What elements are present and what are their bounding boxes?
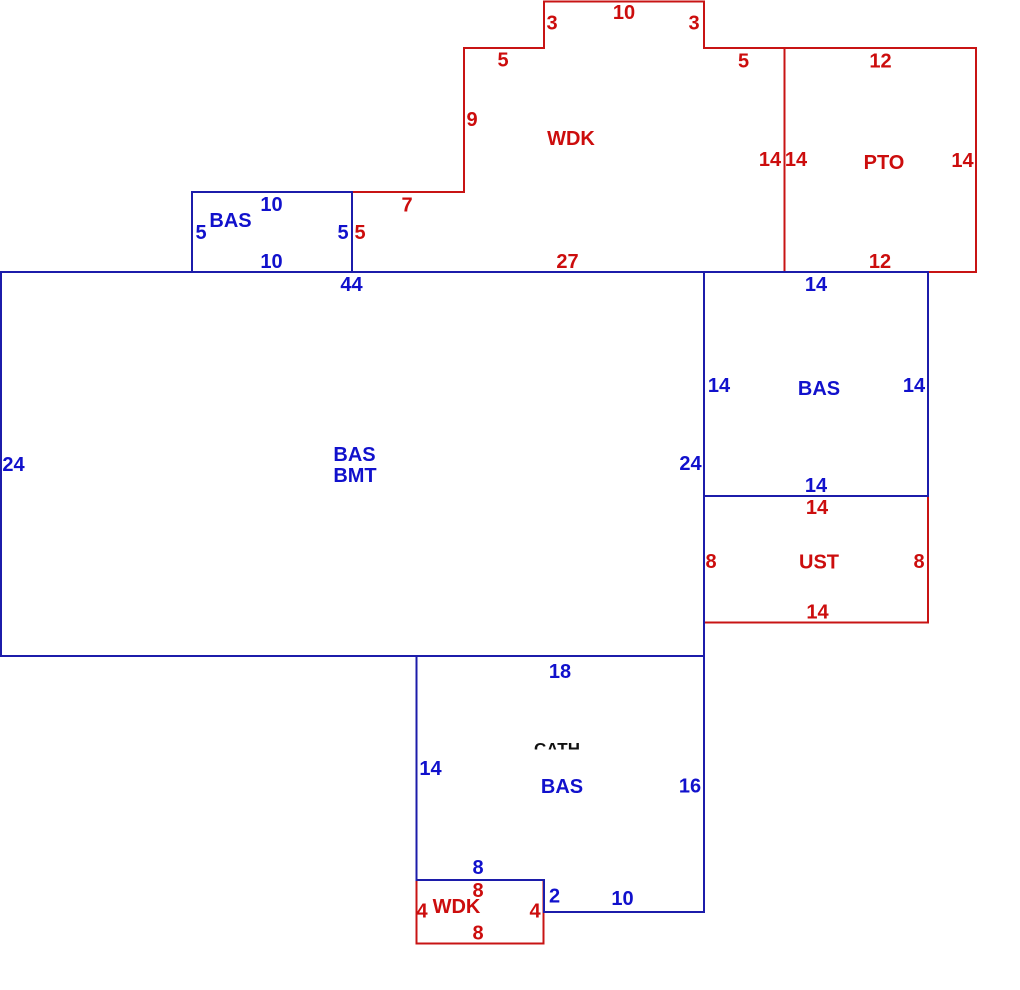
- svg-text:5: 5: [337, 222, 348, 244]
- svg-text:BAS: BAS: [333, 444, 375, 466]
- svg-text:BAS: BAS: [541, 776, 583, 798]
- svg-text:14: 14: [759, 149, 782, 171]
- svg-text:5: 5: [354, 222, 365, 244]
- svg-text:3: 3: [688, 13, 699, 35]
- svg-text:5: 5: [195, 222, 206, 244]
- svg-text:BMT: BMT: [333, 465, 376, 487]
- svg-text:14: 14: [805, 274, 828, 296]
- svg-text:4: 4: [416, 901, 428, 923]
- svg-text:8: 8: [472, 857, 483, 879]
- svg-text:8: 8: [705, 551, 716, 573]
- svg-text:16: 16: [679, 776, 701, 798]
- svg-text:12: 12: [869, 251, 891, 273]
- svg-text:10: 10: [260, 194, 282, 216]
- svg-text:9: 9: [466, 109, 477, 131]
- svg-text:24: 24: [679, 453, 702, 475]
- svg-text:12: 12: [869, 51, 891, 73]
- svg-text:10: 10: [613, 2, 635, 24]
- svg-text:14: 14: [708, 375, 731, 397]
- svg-text:5: 5: [738, 51, 749, 73]
- svg-text:10: 10: [611, 888, 633, 910]
- svg-text:14: 14: [903, 375, 926, 397]
- svg-text:18: 18: [549, 661, 571, 683]
- room UST (right middle, red outline): [704, 496, 928, 623]
- svg-text:14: 14: [806, 602, 829, 624]
- room BAS/BMT main (large, blue outline): [1, 272, 704, 656]
- svg-text:14: 14: [419, 758, 442, 780]
- room WDK small (bottom, red outline): [417, 880, 544, 944]
- svg-text:24: 24: [2, 454, 25, 476]
- svg-text:2: 2: [549, 886, 560, 908]
- svg-text:3: 3: [546, 13, 557, 35]
- svg-text:14: 14: [805, 475, 828, 497]
- svg-text:BAS: BAS: [798, 378, 840, 400]
- room BAS right (blue outline): [704, 272, 928, 496]
- svg-text:7: 7: [401, 195, 412, 217]
- room BAS bottom (blue outline polygon): [417, 656, 705, 912]
- white cover over lower half of CATH: [523, 750, 593, 774]
- svg-text:44: 44: [340, 274, 363, 296]
- svg-text:WDK: WDK: [433, 896, 481, 918]
- svg-text:5: 5: [497, 50, 508, 72]
- room WDK (top, red outline): [352, 2, 785, 273]
- room BAS small (upper left, blue outline): [192, 192, 352, 272]
- svg-text:8: 8: [472, 923, 483, 945]
- svg-text:4: 4: [529, 901, 541, 923]
- svg-text:14: 14: [806, 497, 829, 519]
- svg-text:WDK: WDK: [547, 128, 595, 150]
- svg-text:27: 27: [556, 251, 578, 273]
- svg-text:8: 8: [913, 551, 924, 573]
- svg-text:14: 14: [951, 150, 974, 172]
- svg-text:10: 10: [260, 251, 282, 273]
- svg-text:UST: UST: [799, 552, 839, 574]
- svg-text:PTO: PTO: [864, 152, 905, 174]
- room PTO (top right, red outline): [785, 48, 977, 272]
- svg-text:BAS: BAS: [209, 210, 251, 232]
- svg-text:14: 14: [785, 149, 808, 171]
